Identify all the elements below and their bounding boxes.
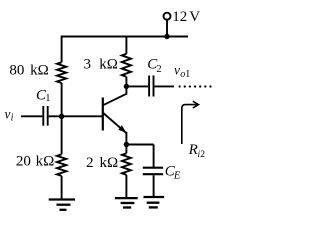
svg-text:2: 2 — [86, 155, 94, 171]
svg-text:V: V — [189, 9, 200, 25]
svg-text:v: v — [174, 63, 180, 78]
svg-text:kΩ: kΩ — [36, 154, 55, 170]
svg-text:3: 3 — [84, 57, 92, 73]
svg-text:v: v — [5, 107, 11, 122]
svg-text:R: R — [188, 142, 198, 158]
svg-text:kΩ: kΩ — [100, 155, 119, 171]
svg-text:20: 20 — [16, 154, 31, 170]
svg-text:i: i — [11, 113, 14, 124]
svg-text:2: 2 — [200, 150, 205, 160]
svg-text:E: E — [173, 171, 181, 182]
svg-text:12: 12 — [172, 9, 187, 25]
svg-text:2: 2 — [156, 64, 161, 75]
svg-text:1: 1 — [185, 69, 190, 80]
svg-text:80: 80 — [9, 63, 24, 79]
svg-text:1: 1 — [45, 93, 50, 104]
svg-text:kΩ: kΩ — [99, 57, 118, 73]
svg-text:kΩ: kΩ — [30, 63, 49, 79]
